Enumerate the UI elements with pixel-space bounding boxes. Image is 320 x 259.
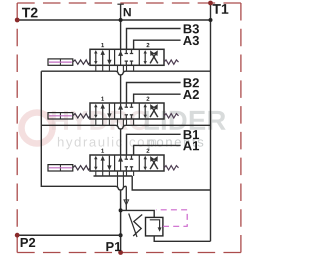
label A1 xyxy=(183,141,199,150)
wire bypass branch with down arrow xyxy=(125,186,127,210)
label B1 xyxy=(184,130,199,139)
wire pump feed P1 riser xyxy=(120,190,122,253)
valve section 2 xyxy=(48,97,179,119)
red dashed enclosure border xyxy=(17,3,241,253)
node T1 junction xyxy=(209,18,213,22)
wire port A3 xyxy=(134,40,181,49)
label T2 xyxy=(22,8,38,18)
relief valve internal flow arrow xyxy=(150,220,160,230)
wire gallery under valve 1 with funnel xyxy=(41,71,210,75)
wire valve3 bottom stubs xyxy=(96,171,134,176)
wire centre channels into lower funnel xyxy=(117,171,119,188)
wire port B2 xyxy=(127,83,181,104)
wire port A2 xyxy=(134,94,181,103)
watermark subtitle xyxy=(58,137,156,149)
label A2 xyxy=(183,90,199,99)
watermark brand text xyxy=(52,111,149,130)
label B2 xyxy=(184,78,199,87)
node T1 red xyxy=(208,1,213,6)
node relief branch junction xyxy=(119,208,123,212)
valve section 1 xyxy=(48,43,179,65)
relief valve pilot line dashed xyxy=(156,210,187,227)
node N junction xyxy=(119,18,123,22)
label B3 xyxy=(184,24,199,33)
relief valve RV1 body xyxy=(146,217,163,236)
wire valve2 bottom stubs xyxy=(96,119,134,127)
label P1 xyxy=(106,242,121,251)
wire centre feed to valve 2 xyxy=(120,75,122,103)
wire lower funnel under valve 3 xyxy=(114,186,127,190)
valve section 3 xyxy=(48,149,179,171)
wire gallery under valve 2 with funnel xyxy=(41,125,210,129)
wire port B1 xyxy=(127,134,181,155)
wire T1 vertical xyxy=(210,3,212,241)
node P2 junction xyxy=(119,233,123,237)
watermark logo ring xyxy=(22,113,53,144)
wire tank return from valve 3 xyxy=(132,176,210,190)
wire centre feed to valve 3 xyxy=(120,129,122,155)
wire N vertical xyxy=(120,4,122,49)
wire gallery under valve 3 xyxy=(94,175,133,177)
label T1 xyxy=(213,4,229,14)
node T2 red xyxy=(15,18,20,23)
wire relief valve inlet xyxy=(121,210,155,217)
N top tick xyxy=(117,3,123,5)
relief valve adjustable spring xyxy=(133,215,142,237)
label P2 xyxy=(21,238,36,247)
wire left return line xyxy=(41,71,113,186)
wire relief valve outlet to tank xyxy=(154,236,210,241)
label N xyxy=(124,8,131,16)
wire valve1 bottom stubs xyxy=(96,65,134,72)
node P1 red xyxy=(118,250,123,255)
label A3 xyxy=(183,36,199,45)
wire port B3 xyxy=(127,29,181,50)
node P2 red xyxy=(15,233,20,238)
wire P2 line xyxy=(17,234,120,236)
wire T2-N-T1 top line xyxy=(17,19,210,21)
wire port A1 xyxy=(134,145,181,155)
